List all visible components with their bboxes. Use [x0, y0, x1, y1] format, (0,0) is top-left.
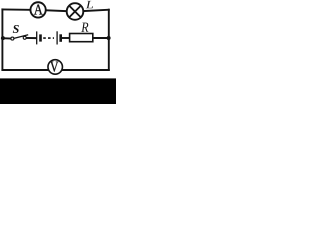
battery cell 2 short plate	[59, 34, 62, 42]
label R	[81, 23, 88, 32]
wire bottom (voltmeter branch)	[2, 69, 108, 71]
wire top (A and lamp branch)	[2, 9, 108, 11]
battery cell 1 short plate	[39, 34, 42, 41]
switch S	[11, 35, 28, 40]
resistor R	[70, 34, 93, 42]
wire dashed between battery cells	[43, 37, 54, 39]
wire battery to resistor	[62, 37, 70, 39]
label S	[13, 25, 19, 33]
wire left	[1, 9, 3, 70]
battery cell 1 long plate	[36, 31, 38, 44]
black bottom bar	[0, 78, 116, 104]
wire right	[108, 10, 110, 70]
label L	[86, 1, 93, 8]
ammeter A	[30, 2, 45, 17]
lamp L	[67, 3, 84, 20]
node right junction	[107, 36, 111, 40]
wire switch to battery	[26, 37, 36, 39]
voltmeter V	[48, 60, 63, 75]
wire resistor to right junction	[93, 37, 109, 39]
node left junction	[1, 36, 5, 40]
battery cell 2 long plate	[56, 31, 58, 44]
wire left junction to switch	[2, 37, 11, 39]
